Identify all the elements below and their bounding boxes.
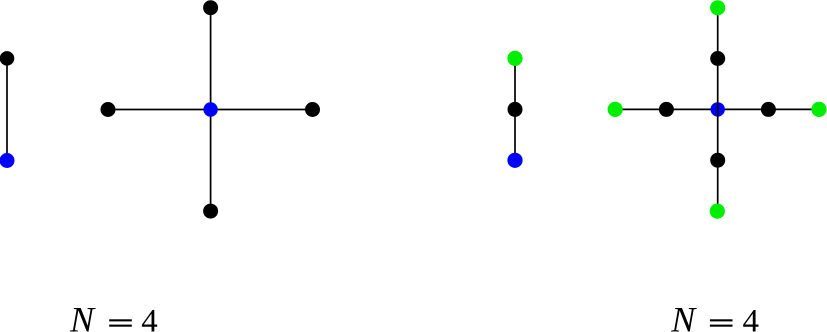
- svg-text:4: 4: [743, 304, 760, 332]
- svg-text:4: 4: [141, 304, 158, 332]
- svg-text:N: N: [69, 300, 96, 332]
- svg-text:N: N: [670, 300, 697, 332]
